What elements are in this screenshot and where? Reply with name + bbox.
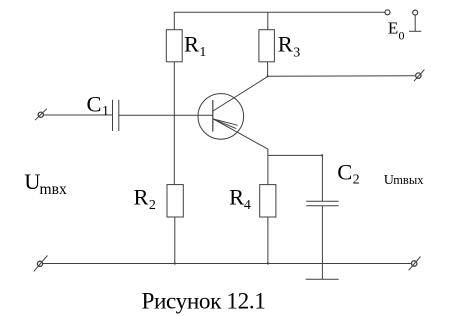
label R2 — [134, 185, 156, 213]
svg-text:0: 0 — [399, 28, 405, 42]
wire R3 bottom lead to collector node — [267, 62, 269, 77]
label Umvx input voltage — [24, 169, 67, 198]
wire bottom common rail — [43, 263, 412, 265]
svg-text:R: R — [278, 31, 293, 56]
capacitor C1 — [113, 100, 119, 131]
svg-text:E: E — [388, 19, 398, 38]
svg-text:U: U — [24, 169, 40, 194]
wire emitter node vertical to R4 — [267, 149, 269, 184]
resistor R4 — [260, 185, 276, 217]
resistor R2 — [167, 185, 183, 217]
svg-text:R: R — [134, 185, 149, 210]
wire R2 bottom lead — [174, 217, 176, 263]
wire emitter node to C2 — [268, 154, 323, 156]
svg-text:1: 1 — [102, 104, 109, 119]
label C1 — [87, 92, 110, 119]
terminal bottom left — [34, 256, 48, 272]
capacitor C2 — [306, 201, 339, 206]
label R1 — [184, 31, 206, 60]
svg-text:R: R — [184, 31, 199, 56]
svg-text:4: 4 — [244, 198, 251, 213]
terminal bottom right — [409, 257, 421, 271]
junction dot R4 bottom rail — [267, 262, 269, 264]
svg-text:1: 1 — [199, 45, 206, 60]
transistor collector stroke — [213, 77, 268, 111]
svg-text:C: C — [337, 160, 352, 185]
wire C2 bottom lead — [321, 206, 323, 280]
resistor R1 — [166, 30, 182, 62]
svg-text:2: 2 — [353, 173, 360, 188]
battery E0 terminal symbol — [409, 10, 421, 31]
wire collector node to output terminal — [268, 75, 416, 78]
transistor base bar — [212, 100, 214, 132]
transistor emitter arrow — [213, 119, 237, 129]
resistor R3 — [259, 30, 275, 62]
label Umvyx output voltage — [384, 173, 424, 188]
wire R4 bottom lead — [267, 217, 269, 263]
wire top supply rail — [174, 11, 385, 13]
terminal output top — [414, 70, 425, 82]
svg-text:3: 3 — [293, 46, 300, 61]
wire C1 to base — [119, 114, 213, 116]
wire R1 to R2 vertical (base divider) — [173, 62, 175, 185]
ground — [306, 278, 339, 280]
svg-text:2: 2 — [149, 198, 156, 213]
label C2 — [337, 160, 359, 188]
junction dot emitter wire to C2 corner — [321, 154, 323, 156]
wire R1 top lead — [173, 12, 175, 29]
wire R3 top lead — [267, 12, 269, 29]
transistor VT body — [198, 94, 244, 140]
label R3 — [278, 31, 300, 60]
transistor emitter stroke — [213, 119, 268, 149]
terminal top rail end — [385, 10, 390, 15]
svg-text:mвых: mвых — [393, 173, 424, 187]
svg-text:R: R — [229, 184, 244, 209]
svg-text:C: C — [87, 92, 102, 117]
terminal input — [35, 109, 47, 121]
svg-text:mвх: mвх — [40, 181, 67, 198]
label E0 — [388, 19, 405, 43]
wire input terminal to C1 — [43, 114, 112, 116]
svg-text:Рисунок 12.1: Рисунок 12.1 — [142, 289, 266, 315]
wire C2 top lead — [321, 155, 323, 201]
label R4 — [229, 184, 251, 212]
junction dot R2 bottom rail — [174, 262, 176, 264]
junction dot collector node — [267, 75, 269, 77]
